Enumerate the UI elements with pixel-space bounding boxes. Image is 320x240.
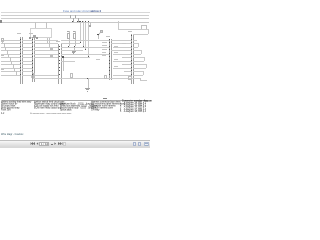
net label [114, 52, 119, 53]
fuse F2 [0, 0, 1, 1]
net label [122, 50, 127, 51]
net label [102, 52, 107, 53]
legend column 3 [60, 101, 97, 111]
terminal label [1, 41, 4, 42]
wire B-C row4 [34, 54, 58, 55]
connector strip E [0, 0, 1, 1]
component K2 [50, 55, 53, 57]
wire to strip E top [133, 34, 148, 35]
header rule [1, 12, 150, 13]
wire E stub row2 [133, 47, 137, 48]
connector terminal left [1, 38, 4, 41]
net label [114, 46, 119, 47]
wire step [146, 64, 147, 68]
wire E-right row10 [136, 75, 143, 76]
connector label [128, 31, 132, 32]
component box top-right [141, 25, 147, 30]
wire jog [7, 50, 8, 54]
wire E-right row2 [136, 47, 138, 48]
wire D-E row8 [113, 68, 131, 69]
legend footnote [30, 112, 71, 115]
wire E-right row6 [136, 61, 144, 62]
wire drop mid [63, 57, 64, 71]
wire E-right row9 [133, 71, 143, 72]
bus tap tick [70, 15, 71, 19]
junction F1-row2 [68, 46, 69, 47]
component M2 [104, 75, 108, 79]
bus tap tick [73, 18, 74, 22]
junction bus [82, 21, 83, 22]
wire step [138, 43, 139, 47]
wire left row0 [1, 40, 20, 41]
wire A-B row8 [22, 68, 32, 69]
wire C-D row5 [61, 57, 91, 58]
wire B-C row5 [34, 57, 58, 58]
mark inside box [33, 35, 36, 38]
component M3 [128, 76, 132, 80]
wire E-right row8 [136, 68, 146, 69]
wire C-D row6 [61, 61, 76, 62]
legend column 4 [91, 101, 125, 111]
switch S1 [0, 0, 1, 1]
bus tap wire 2 [83, 21, 84, 46]
toolbar [0, 140, 150, 148]
status text [1, 133, 23, 136]
wire C-D row1 [61, 43, 81, 44]
net label [102, 49, 107, 50]
junction bus [85, 21, 86, 22]
wire B-C row1 [34, 43, 58, 44]
wire A-B row1 [22, 43, 32, 44]
zoom box 1 [133, 142, 136, 146]
wire D-E row10 [113, 75, 131, 76]
wire jog [16, 71, 17, 75]
junction mid [62, 56, 63, 57]
ground G1 [0, 0, 1, 1]
wire A-B row7 [22, 64, 32, 65]
ground G2 [0, 0, 1, 1]
net label [122, 57, 127, 58]
bus stub [90, 22, 91, 26]
connector strip D [0, 0, 1, 1]
wire E-right row3 [133, 50, 141, 51]
wire A-B row5 [22, 57, 32, 58]
wires will be injected below [0, 0, 150, 1]
net label [114, 66, 119, 67]
junction F2-row2 [74, 46, 75, 47]
bus label mark [0, 20, 2, 23]
wire E stub row10 [133, 75, 137, 76]
net label [122, 43, 127, 44]
terminal T [89, 25, 91, 27]
wire left row9 [1, 71, 20, 72]
net label [102, 42, 107, 43]
wire jog [8, 54, 9, 58]
wire E-right row1 [133, 43, 138, 44]
wire step [144, 57, 145, 61]
legend separator [2, 100, 148, 101]
wire jog [10, 57, 11, 61]
wire jog [11, 61, 12, 65]
wire B-C row0 [34, 40, 58, 41]
wire box lead 1 [47, 38, 48, 44]
wire A-B row0 [22, 40, 32, 41]
wire C-D row4 [61, 54, 109, 55]
wire jog [13, 64, 14, 68]
legend column 2 [34, 101, 66, 109]
junction tap4 [88, 56, 89, 57]
connector label [17, 33, 21, 34]
corner page mark [1, 112, 4, 115]
wire A-B row6 [22, 61, 32, 62]
bus line X [1, 22, 150, 23]
wire E stub row4 [133, 54, 137, 55]
wire C-D row2 [61, 47, 109, 48]
wire E-right row5 [133, 57, 144, 58]
component M4 [33, 73, 36, 78]
wire top-right drop [148, 29, 149, 34]
junction ground [87, 78, 88, 79]
wire E stub row0 [133, 40, 137, 41]
title [63, 10, 101, 13]
wire from bus [118, 21, 119, 29]
bus tap wire 1 [80, 21, 81, 43]
legend column 1 [1, 101, 31, 111]
page field [39, 142, 49, 147]
wire A-B row4 [22, 54, 32, 55]
connector label [56, 41, 60, 42]
component box ECU [30, 28, 52, 38]
wire B-C row2 [34, 47, 58, 48]
wire bus to box 1 [35, 22, 36, 28]
wire B bottom drop [31, 75, 32, 79]
dash [51, 144, 53, 145]
legend mark center [103, 98, 107, 99]
wire C-D row0 [61, 40, 109, 41]
btn first [30, 142, 35, 145]
zoom box 3 [144, 142, 149, 146]
bus line 30 [1, 15, 150, 16]
bus tap wire 4 [88, 21, 89, 57]
wire left row10 [1, 75, 20, 76]
wire left row3 [1, 50, 20, 51]
junction bus [79, 21, 80, 22]
btn menu [63, 142, 66, 146]
wire B-C row10 [34, 75, 58, 76]
btn next [54, 142, 57, 145]
wire E-right row4 [136, 54, 141, 55]
wire D-E row6 [113, 61, 131, 62]
bottom common wire [33, 78, 140, 79]
bus tap tick [75, 15, 76, 19]
junction bus [88, 21, 89, 22]
wire D-E stub row7 [124, 64, 131, 65]
wire bottom right [140, 80, 147, 81]
terminal label [1, 55, 4, 56]
net label [102, 45, 107, 46]
wire C-D row3 [61, 50, 83, 51]
wire left row2 [1, 47, 20, 48]
wire left row4 [1, 54, 20, 55]
pin symbol P1 [29, 37, 31, 39]
component K1 [50, 48, 53, 50]
wire A-B row3 [22, 50, 32, 51]
btn last [58, 142, 63, 145]
wire A-B row2 [22, 47, 32, 48]
wire A-B row10 [22, 75, 32, 76]
wire D-E stub row5 [124, 57, 131, 58]
net label [122, 64, 127, 65]
junction tap2 [83, 46, 84, 47]
wire left row8 [1, 68, 20, 69]
wire B-C row3 [34, 50, 58, 51]
bus line 15 [1, 18, 150, 19]
connector strip A [0, 0, 1, 1]
junction tap3 [85, 49, 86, 50]
net label [96, 59, 101, 60]
wire E-right row7 [133, 64, 146, 65]
wire E stub row8 [133, 68, 137, 69]
zoom box 2 [138, 142, 141, 146]
btn prev [36, 142, 39, 145]
bus tap tick [78, 18, 79, 22]
wire jog [4, 43, 5, 47]
net label [114, 59, 119, 60]
connector label [106, 36, 110, 37]
bus tap dots [70, 17, 71, 18]
connector strip C [0, 0, 1, 1]
bus tap wire 3 [85, 21, 86, 50]
wire jog [2, 40, 3, 44]
wire jog [14, 68, 15, 72]
wire D-E stub row9 [124, 71, 131, 72]
wire D-E row1 [111, 43, 131, 44]
wire D-E stub row3 [124, 50, 131, 51]
wire left row1 [1, 43, 20, 44]
wire jog [5, 47, 6, 51]
wire E stub row6 [133, 61, 137, 62]
wire step [143, 71, 144, 75]
wire bus to box 2 [46, 22, 47, 28]
wire D-E row2 [113, 47, 131, 48]
wire step [141, 50, 142, 54]
pin symbol P2 [36, 37, 38, 39]
wire D-E row4 [113, 54, 131, 55]
wire left row6 [1, 61, 20, 62]
wire top-right feed [118, 29, 148, 30]
junction tap1 [80, 42, 81, 43]
wire box lead 2 [49, 38, 50, 47]
wire A-B row9 [22, 71, 32, 72]
connector strip B [0, 0, 1, 1]
legend column 5 [120, 100, 152, 112]
net label [102, 55, 107, 56]
fuse F1 [0, 0, 1, 1]
wire D-E row0 [111, 40, 131, 41]
connector label [29, 33, 33, 34]
wire bottom jog [140, 78, 141, 80]
terminal label [1, 69, 4, 70]
component M1 [70, 73, 73, 78]
wire D-E row3 [111, 50, 131, 51]
wire left row7 [1, 64, 20, 65]
wire left row5 [1, 57, 20, 58]
